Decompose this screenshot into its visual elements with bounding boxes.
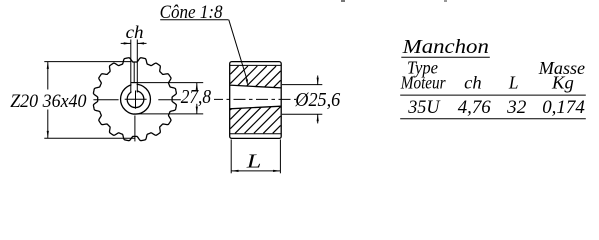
svg-text:Manchon: Manchon: [402, 36, 489, 58]
svg-text:L: L: [508, 72, 519, 92]
svg-text:ch: ch: [464, 72, 482, 92]
svg-text:Kg: Kg: [551, 73, 574, 93]
svg-text:L: L: [246, 151, 262, 173]
svg-text:Z20 36x40: Z20 36x40: [10, 91, 87, 112]
svg-text:4,76: 4,76: [458, 97, 491, 118]
svg-text:ch: ch: [126, 22, 144, 42]
svg-text:0,174: 0,174: [542, 97, 585, 118]
svg-text:32: 32: [506, 97, 527, 118]
svg-text:35U: 35U: [407, 97, 440, 118]
svg-text:Ø25,6: Ø25,6: [294, 90, 340, 111]
svg-text:Moteur: Moteur: [400, 72, 446, 92]
svg-text:27,8: 27,8: [181, 87, 212, 108]
